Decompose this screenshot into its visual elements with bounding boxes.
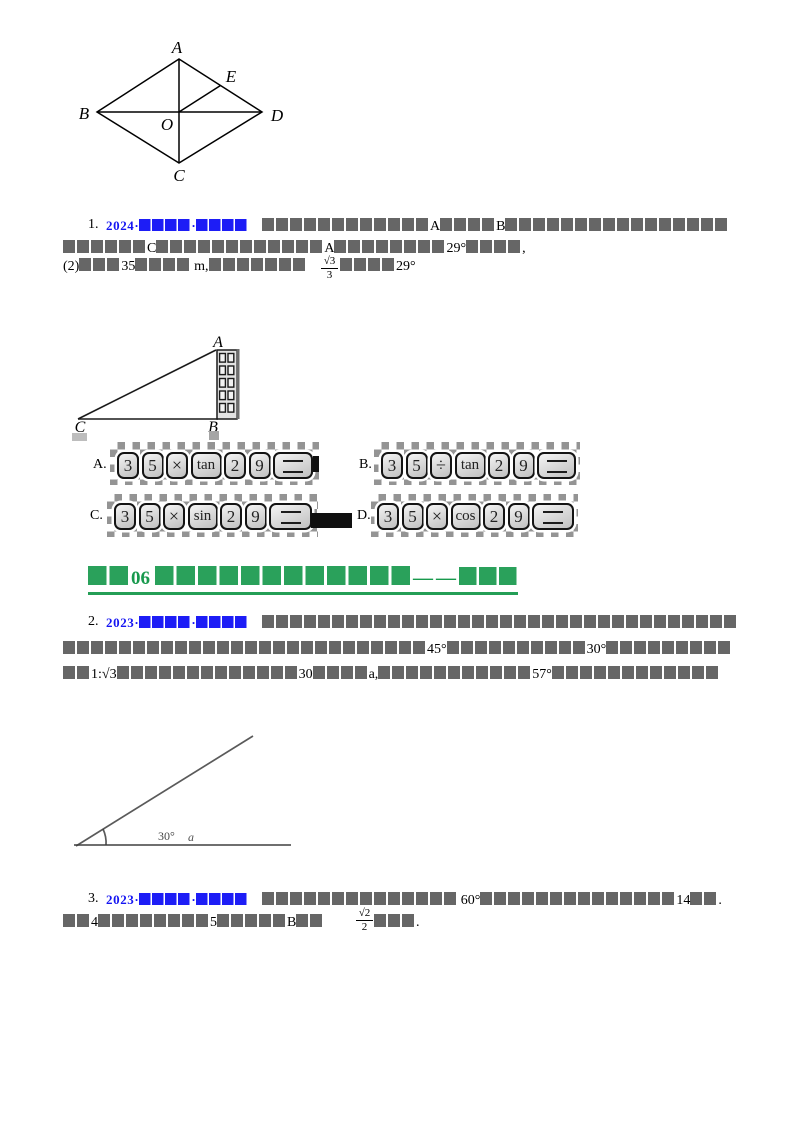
building body	[217, 350, 237, 419]
svg-text:A: A	[212, 334, 223, 351]
svg-text:C: C	[173, 166, 185, 185]
diagonal BD	[97, 111, 262, 113]
svg-text:B: B	[79, 104, 90, 123]
gray artifact squares	[72, 433, 87, 441]
figure: rhombus ABCD	[97, 59, 262, 163]
svg-text:A: A	[171, 38, 183, 57]
figure: slope diagram	[74, 736, 291, 846]
svg-text:30°: 30°	[158, 829, 175, 843]
svg-text:O: O	[161, 115, 173, 134]
svg-text:D: D	[270, 106, 284, 125]
svg-text:E: E	[225, 67, 237, 86]
diagonal AC	[178, 59, 180, 163]
figure: building triangle	[78, 350, 218, 419]
svg-text:a: a	[188, 830, 194, 844]
segment OE	[179, 86, 221, 113]
